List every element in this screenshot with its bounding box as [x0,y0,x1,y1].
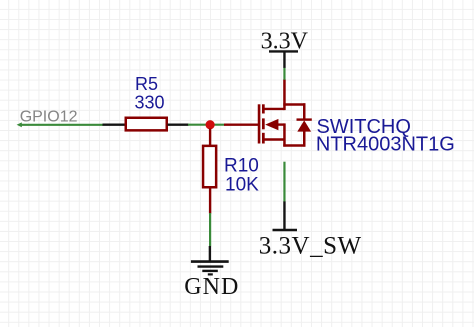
label R5 [135,74,158,94]
transistor Q SWITCHQ (NMOS symbol) [259,79,284,146]
ground [191,246,229,274]
svg-text:GPIO12: GPIO12 [20,108,78,125]
wire segment (black) right of R5 [168,123,189,125]
label GND [184,274,239,300]
pin wire (dark red) below R10 [209,188,211,213]
label SWITCHQ [317,116,411,138]
gate pin wire (dark red) [224,123,259,125]
pin wire (dark red) junction to R10 [209,129,211,146]
value 10K [225,174,259,195]
wire segment (green) to junction [188,124,225,126]
net label GPIO12 [20,108,78,125]
wire segment (black) left of R5 [103,123,126,125]
svg-text:NTR4003NT1G: NTR4003NT1G [316,134,455,156]
svg-text:3.3V_SW: 3.3V_SW [259,232,362,259]
power 3.3V_SW (bar symbol) [273,201,298,230]
svg-text:GND: GND [184,274,239,300]
body diode of Q [283,103,312,146]
power 3.3V (bar symbol) [269,51,298,68]
svg-text:R10: R10 [224,155,259,176]
svg-text:R5: R5 [135,74,158,94]
resistor R5 [126,118,167,131]
resistor R10 [203,146,216,187]
wire GPIO12 net (green, arrow at left end) [17,122,103,127]
junction node (red dot) [206,120,215,129]
value NTR4003NT1G [316,134,455,156]
wire segment (green) source to 3.3V_SW [283,162,285,202]
wire segment (green) drain to 3.3V [283,68,285,80]
label 3.3V_SW [259,232,362,259]
wire segment (green) R10 to GND [209,213,211,246]
svg-text:330: 330 [135,92,165,112]
svg-text:10K: 10K [225,174,259,195]
value 330 [135,92,165,112]
svg-text:3.3V: 3.3V [261,29,309,55]
label R10 [224,155,259,176]
label 3.3V [261,29,309,55]
